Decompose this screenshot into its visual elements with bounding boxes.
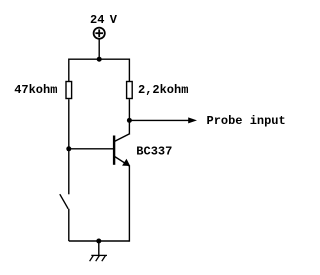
svg-text:47kohm: 47kohm [14,83,57,97]
svg-text:Probe input: Probe input [207,114,286,128]
svg-text:24: 24 [90,13,104,27]
svg-text:V: V [110,13,118,27]
svg-text:2,2kohm: 2,2kohm [138,83,188,97]
svg-text:BC337: BC337 [136,145,172,159]
